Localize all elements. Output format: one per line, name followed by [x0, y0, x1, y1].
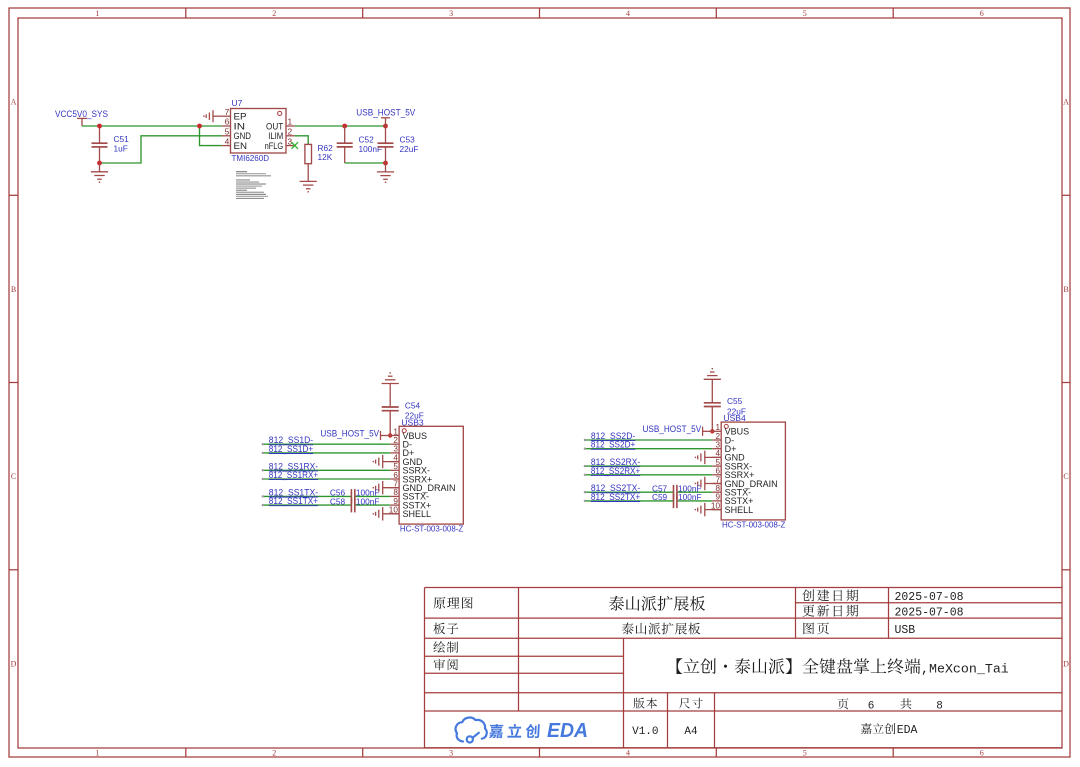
svg-text:TMI6260D: TMI6260D	[232, 153, 270, 163]
svg-text:C: C	[1063, 472, 1068, 481]
svg-text:A: A	[1063, 98, 1069, 107]
svg-text:D: D	[11, 659, 17, 668]
svg-text:5: 5	[803, 749, 807, 758]
svg-text:6: 6	[715, 467, 720, 476]
svg-text:1: 1	[288, 117, 293, 127]
svg-text:EN: EN	[234, 140, 248, 151]
svg-text:812_SS1RX+: 812_SS1RX+	[269, 470, 318, 480]
svg-text:A: A	[11, 98, 17, 107]
svg-text:6: 6	[868, 700, 875, 712]
svg-text:5: 5	[803, 9, 807, 18]
svg-text:3: 3	[715, 441, 720, 450]
svg-text:3: 3	[449, 9, 453, 18]
svg-text:B: B	[11, 285, 16, 294]
svg-text:7: 7	[225, 107, 230, 117]
svg-text:HC-ST-003-008-Z: HC-ST-003-008-Z	[400, 524, 463, 534]
svg-text:D: D	[1063, 659, 1069, 668]
svg-text:12K: 12K	[318, 152, 333, 162]
svg-text:22uF: 22uF	[400, 144, 419, 154]
svg-text:100nF: 100nF	[356, 496, 380, 506]
svg-text:812_SS2D+: 812_SS2D+	[591, 440, 635, 450]
svg-text:USB_HOST_5V: USB_HOST_5V	[320, 428, 379, 438]
svg-text:2: 2	[288, 127, 293, 137]
svg-text:2025-07-08: 2025-07-08	[895, 591, 964, 604]
svg-text:C55: C55	[727, 396, 743, 406]
svg-text:C: C	[11, 472, 16, 481]
svg-text:,MeXcon_Tai: ,MeXcon_Tai	[921, 662, 1009, 677]
svg-text:6: 6	[225, 117, 230, 127]
svg-text:C52: C52	[359, 134, 375, 144]
svg-text:C53: C53	[400, 134, 416, 144]
svg-text:1: 1	[393, 427, 398, 436]
svg-text:U7: U7	[232, 98, 243, 108]
svg-text:nFLG: nFLG	[265, 140, 284, 151]
svg-text:9: 9	[715, 493, 720, 502]
svg-text:812_SS1TX+: 812_SS1TX+	[269, 496, 318, 506]
svg-text:6: 6	[393, 471, 398, 480]
svg-text:812_SS1D+: 812_SS1D+	[269, 444, 313, 454]
svg-text:1uF: 1uF	[114, 143, 128, 153]
svg-text:5: 5	[393, 462, 398, 471]
svg-text:B: B	[1063, 285, 1068, 294]
svg-text:HC-ST-003-008-Z: HC-ST-003-008-Z	[722, 519, 785, 529]
svg-text:1: 1	[715, 423, 720, 432]
svg-text:1: 1	[95, 9, 99, 18]
svg-text:3: 3	[393, 445, 398, 454]
svg-text:3: 3	[449, 749, 453, 758]
svg-text:C58: C58	[330, 496, 346, 506]
svg-text:8: 8	[936, 700, 943, 712]
svg-text:100nF: 100nF	[359, 144, 383, 154]
svg-text:SHELL: SHELL	[725, 505, 754, 515]
svg-text:6: 6	[980, 9, 984, 18]
svg-text:USB_HOST_5V: USB_HOST_5V	[643, 424, 702, 434]
svg-text:8: 8	[715, 484, 720, 493]
svg-text:9: 9	[393, 497, 398, 506]
svg-text:100nF: 100nF	[678, 492, 702, 502]
svg-text:1: 1	[95, 749, 99, 758]
svg-text:USB_HOST_5V: USB_HOST_5V	[356, 107, 416, 118]
svg-text:8: 8	[393, 488, 398, 497]
svg-text:V1.0: V1.0	[632, 726, 658, 738]
svg-text:USB: USB	[895, 624, 916, 637]
svg-text:2: 2	[393, 436, 398, 445]
svg-text:812_SS2RX+: 812_SS2RX+	[591, 466, 640, 476]
svg-text:812_SS2TX+: 812_SS2TX+	[591, 492, 640, 502]
svg-text:6: 6	[980, 749, 984, 758]
svg-text:4: 4	[626, 9, 630, 18]
svg-text:5: 5	[715, 458, 720, 467]
svg-text:4: 4	[225, 136, 230, 146]
svg-text:C59: C59	[652, 492, 668, 502]
svg-text:EDA: EDA	[547, 720, 588, 742]
svg-text:5: 5	[225, 127, 230, 137]
svg-text:2: 2	[272, 749, 276, 758]
svg-text:SHELL: SHELL	[403, 509, 432, 519]
svg-text:4: 4	[626, 749, 630, 758]
svg-text:2025-07-08: 2025-07-08	[895, 606, 964, 619]
svg-text:2: 2	[272, 9, 276, 18]
svg-text:3: 3	[288, 136, 293, 146]
svg-text:A4: A4	[684, 726, 698, 738]
svg-text:2: 2	[715, 432, 720, 441]
svg-text:C54: C54	[405, 400, 421, 410]
svg-text:EDA: EDA	[897, 724, 918, 737]
